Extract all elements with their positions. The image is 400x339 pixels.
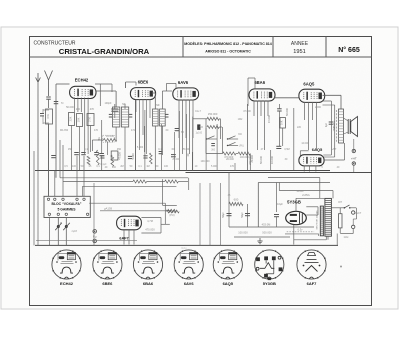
resistor R osc grid [69, 113, 75, 126]
terminal HT minus [352, 162, 355, 165]
svg-text:25.000: 25.000 [182, 148, 190, 151]
svg-text:5.000: 5.000 [137, 146, 144, 149]
svg-text:200: 200 [76, 108, 81, 111]
svg-text:250.000: 250.000 [208, 112, 218, 116]
svg-text:50µF: 50µF [222, 212, 225, 218]
electrolytic cap volume [197, 124, 200, 129]
svg-text:0,5M: 0,5M [284, 148, 289, 151]
svg-text:270.000: 270.000 [248, 155, 252, 165]
svg-text:470.000: 470.000 [145, 228, 155, 232]
svg-text:6AQ5: 6AQ5 [303, 81, 315, 86]
svg-text:1M2: 1M2 [238, 118, 243, 121]
switch contact 1 [206, 138, 217, 140]
svg-text:100: 100 [72, 165, 77, 168]
wire 6BA6 top left vertical [247, 78, 249, 106]
wire 5Y3 plates to transformer [295, 198, 297, 211]
svg-text:SECTEUR 110-245: SECTEUR 110-245 [317, 210, 319, 230]
svg-text:CA-7: CA-7 [195, 110, 201, 113]
svg-text:600: 600 [234, 198, 239, 202]
dashed trimmer box [103, 135, 114, 142]
svg-text:10K: 10K [77, 117, 81, 122]
svg-text:MA 350: MA 350 [60, 129, 69, 132]
fuse [339, 214, 343, 228]
svg-text:+HT: +HT [351, 157, 357, 161]
wire decoupling verticals [293, 108, 295, 171]
svg-text:453.0M: 453.0M [262, 223, 271, 227]
wire MF2 connections [154, 93, 156, 109]
bus ground main [35, 170, 330, 172]
svg-text:100pF: 100pF [104, 102, 112, 105]
svg-text:N° 665: N° 665 [338, 46, 360, 54]
wire transformer bottom [327, 236, 329, 240]
resistor inline AVC 2 [165, 180, 179, 183]
capacitor MF1 right [129, 113, 132, 115]
tube 6BE6 [130, 88, 155, 100]
svg-text:ARIOSO 811 - OCTOMATIC: ARIOSO 811 - OCTOMATIC [205, 50, 251, 54]
wire OT to speaker [344, 118, 349, 121]
svg-text:4,7M: 4,7M [147, 219, 153, 223]
tube 6AV6 [173, 88, 199, 100]
svg-text:BLOC “VOXALFA”: BLOC “VOXALFA” [52, 202, 82, 206]
speaker [347, 119, 349, 134]
wire filter bottom bus [229, 226, 314, 228]
capacitors on ground bus [51, 155, 56, 157]
svg-text:50.000: 50.000 [259, 155, 263, 163]
svg-text:5 GAMMES: 5 GAMMES [57, 208, 76, 212]
wire drops into bloc [48, 124, 50, 196]
svg-text:6BA6: 6BA6 [254, 80, 265, 85]
wire ECH42 grid left [56, 83, 70, 85]
svg-text:MODÈLES: PHILHARMONIC 812 - PI: MODÈLES: PHILHARMONIC 812 - PIANOMATIC 8… [184, 41, 272, 46]
tube 5Y3GB [286, 211, 307, 224]
svg-text:100: 100 [164, 165, 169, 168]
svg-text:+HT: +HT [332, 148, 337, 151]
capacitor 5.000 [128, 155, 132, 157]
svg-text:12.000: 12.000 [301, 142, 309, 145]
stray mark [340, 266, 342, 268]
svg-text:ECH42: ECH42 [75, 78, 89, 83]
wire 6BE6 pins [135, 99, 137, 112]
capacitor tone [329, 121, 333, 123]
resistor vertical pair mid [96, 150, 99, 165]
socket 6BE6 [93, 250, 122, 279]
bus lower second [36, 240, 137, 242]
wire 6AQ5-2 pins [303, 166, 305, 172]
svg-text:500.000: 500.000 [262, 231, 272, 235]
wire bus drop left [59, 140, 61, 178]
wire drop x188 [188, 178, 190, 190]
svg-text:0,1: 0,1 [84, 148, 88, 151]
capacitor 6BA6 screen [277, 108, 282, 110]
ground arrow electrode [37, 73, 39, 82]
svg-text:MF: MF [156, 104, 160, 107]
capacitor detector [175, 128, 180, 130]
wire transformer to mains [331, 207, 344, 209]
resistor 6AF7 2M [168, 209, 177, 212]
svg-text:MF: MF [122, 103, 126, 106]
tube 6BA6 [249, 89, 275, 101]
wire 6BA6 pins [253, 101, 255, 117]
tube 6AQ5 second [299, 155, 324, 166]
resistor vert 150 [150, 153, 153, 164]
wire HT distribution [234, 236, 290, 238]
wire 6AQ5 pins [304, 102, 306, 120]
svg-text:22K: 22K [69, 116, 73, 121]
wire osc grid top [95, 83, 112, 85]
terminal PU jack 1 [93, 230, 97, 234]
socket 6AQ5 [213, 250, 242, 279]
svg-text:10K: 10K [280, 120, 284, 125]
wire PU pickup step [162, 179, 164, 205]
svg-text:5.000: 5.000 [132, 153, 135, 160]
antenna [45, 71, 49, 81]
wire 6BE6 top left [125, 82, 127, 88]
resistor filter 600ohm [229, 202, 243, 205]
svg-text:6AV6: 6AV6 [184, 281, 194, 286]
wire 6AQ5 plate to OT [323, 94, 342, 96]
capacitor switch net [211, 143, 215, 145]
svg-text:2M: 2M [120, 165, 123, 168]
coil block BLOC VOXALFA 5 GAMMES [44, 196, 90, 217]
resistor box mid [111, 151, 118, 160]
svg-text:2.000: 2.000 [315, 106, 322, 109]
wire secondary step [294, 239, 327, 241]
power transformer primary [320, 206, 323, 236]
resistor 2nd AF [207, 126, 219, 129]
capacitor grid x56 [54, 101, 59, 103]
resistor screen feed [280, 118, 285, 129]
svg-text:5Y3GB: 5Y3GB [287, 200, 301, 205]
svg-text:2µF8: 2µF8 [72, 230, 78, 233]
wire ECH42 pins [74, 98, 76, 113]
svg-text:220: 220 [297, 126, 302, 129]
svg-text:50µF: 50µF [241, 212, 244, 218]
svg-text:ANNEE: ANNEE [291, 41, 309, 47]
svg-text:6AF7: 6AF7 [307, 281, 318, 286]
wire bus right section [186, 172, 372, 174]
wire 6AV6 pins [178, 100, 180, 139]
resistor R osc anode [77, 114, 83, 127]
resistor R screen [87, 114, 94, 126]
wire 6AF7 right [141, 217, 161, 219]
svg-text:1951: 1951 [293, 49, 305, 55]
svg-text:100.000: 100.000 [238, 231, 248, 235]
wire AF bottom with resistors [223, 152, 236, 155]
capacitor filter 1 [227, 213, 232, 215]
svg-text:1M: 1M [146, 165, 149, 168]
wire AF net verticals [205, 119, 207, 154]
header band [30, 56, 372, 58]
svg-text:470: 470 [94, 129, 99, 132]
svg-text:2x350v: 2x350v [302, 194, 311, 197]
wire ECH42 plate right [97, 90, 117, 92]
svg-text:6BA6: 6BA6 [143, 281, 154, 286]
svg-text:6,3 v: 6,3 v [182, 248, 188, 250]
capacitor filter 3 [274, 214, 279, 216]
resistor 10.000 horizontal [92, 139, 103, 141]
capacitor AVC [81, 152, 86, 154]
wire AF top [193, 118, 207, 120]
socket ECH42 [52, 250, 81, 279]
bus AVC [60, 177, 188, 179]
bus bottom chassis [35, 244, 338, 246]
svg-text:360: 360 [211, 149, 216, 152]
wire 6AV6 top bracket [167, 82, 177, 84]
svg-text:47K: 47K [46, 114, 50, 119]
wire 6AF7 pins down [123, 230, 125, 245]
svg-text:472: 472 [131, 129, 136, 132]
wire HT loop [279, 190, 333, 192]
svg-text:47.000: 47.000 [243, 110, 251, 113]
resistor 250.000 [207, 117, 219, 120]
svg-text:6AQ5: 6AQ5 [223, 281, 234, 286]
wire HT terminals [353, 139, 355, 149]
svg-text:16µF: 16µF [277, 203, 283, 206]
svg-text:150: 150 [68, 148, 73, 151]
bus detector line with resistors [63, 181, 133, 183]
capacitor antenna series [46, 96, 51, 98]
svg-text:µA159: µA159 [104, 207, 113, 211]
resistor inline AVC 1 [133, 180, 147, 183]
capacitor padding [111, 108, 118, 110]
capacitor MF2 right [165, 113, 168, 115]
wire IF mid drops [135, 100, 137, 171]
potentiometer tone [65, 218, 67, 246]
tube 6AQ5 [299, 89, 325, 102]
wire filter net [228, 204, 230, 227]
terminal HT plus [352, 149, 355, 152]
svg-text:2x350: 2x350 [297, 190, 304, 193]
svg-text:200: 200 [112, 166, 117, 169]
capacitor 0,1 [100, 155, 104, 157]
svg-text:0,1: 0,1 [158, 148, 162, 151]
wire volume net vertical [192, 117, 194, 171]
wire 6AQ5-2 plate [323, 159, 344, 161]
IF transformer MF1 [113, 107, 120, 127]
capacitor plate decoupling [276, 145, 281, 147]
wire left chassis vertical [33, 151, 35, 245]
resistor PU [166, 210, 179, 213]
svg-text:470: 470 [230, 165, 235, 168]
wire 6BA6 to AF [247, 104, 249, 171]
svg-text:INT: INT [338, 201, 342, 204]
power transformer secondary [325, 198, 332, 236]
svg-text:(PU): (PU) [239, 145, 244, 148]
switch mains [344, 205, 349, 208]
socket 6AF7 [297, 250, 326, 279]
svg-text:20.000: 20.000 [226, 158, 234, 161]
output transformer [339, 109, 344, 143]
capacitor coupling mid [171, 154, 176, 156]
svg-text:5.000: 5.000 [211, 165, 218, 168]
IF transformer MF2 [153, 109, 159, 126]
svg-text:25.000: 25.000 [172, 158, 180, 161]
svg-text:6AQ5: 6AQ5 [312, 147, 323, 152]
svg-text:110v: 110v [343, 236, 349, 239]
svg-text:ECH42: ECH42 [60, 281, 74, 286]
svg-text:(PU): (PU) [169, 213, 174, 217]
svg-text:TRANSFO: TRANSFO [333, 120, 336, 131]
svg-text:SECT: SECT [355, 212, 362, 215]
heater line dashed [287, 231, 314, 233]
tube ECH42 [70, 86, 96, 98]
wire drops to bottom bus [37, 171, 39, 246]
svg-text:47.000: 47.000 [119, 152, 122, 160]
wire 6AQ5 cathode loop [330, 101, 332, 155]
wire heater feed [268, 177, 320, 179]
wire 6AQ5-2 grid bracket [300, 150, 308, 152]
svg-text:47.000: 47.000 [267, 114, 271, 122]
terminal PU jack 2 [93, 239, 97, 243]
svg-text:1µ160: 1µ160 [195, 132, 202, 135]
switch contact 2 [227, 138, 238, 140]
wire AVC return [82, 185, 176, 187]
schematic sheet frame [30, 37, 372, 306]
wire plug drop [336, 234, 338, 246]
svg-text:50.000: 50.000 [66, 106, 74, 109]
resistor antenna load [46, 109, 53, 124]
svg-text:27K: 27K [88, 117, 92, 122]
wire MF1 connections [115, 91, 117, 107]
mains plug [352, 211, 355, 214]
svg-text:CONSTRUCTEUR: CONSTRUCTEUR [34, 41, 76, 47]
capacitor cathode bypass [74, 152, 79, 154]
tube 6AF7 [117, 216, 142, 230]
svg-text:47K: 47K [90, 108, 95, 111]
potentiometer volume [57, 218, 59, 246]
svg-text:6AV6: 6AV6 [178, 80, 189, 85]
svg-text:100.000: 100.000 [200, 160, 210, 163]
svg-text:50.000: 50.000 [285, 107, 289, 115]
switch contact 3 [227, 145, 238, 147]
socket 6BA6 [133, 250, 162, 279]
capacitor 158 [159, 151, 163, 153]
wire 6AF7 feed [100, 210, 170, 212]
wire osc verticals [91, 140, 93, 151]
svg-text:P.µ: P.µ [93, 236, 97, 239]
svg-text:450: 450 [117, 148, 122, 151]
svg-text:6BE6: 6BE6 [102, 281, 113, 286]
wire HT rail to 5Y3 [258, 182, 330, 184]
svg-text:6,3v: 6,3v [298, 228, 304, 232]
wire heater to transformer [285, 233, 319, 235]
capacitor osc [99, 153, 104, 155]
svg-text:5M: 5M [200, 126, 203, 129]
capacitor filter 2 [245, 213, 250, 215]
resistor zigzag cathode [87, 156, 90, 165]
wire right of AF net [249, 154, 251, 171]
socket 5Y3GB [255, 250, 284, 279]
ground filter [259, 238, 261, 241]
capacitor mid2 [143, 155, 147, 157]
svg-text:10.000: 10.000 [106, 134, 114, 138]
wire antenna to bloc [48, 124, 50, 196]
svg-text:2µF: 2µF [325, 122, 328, 127]
capacitor MF1 left [109, 113, 112, 115]
bloc bottom terminals [48, 213, 50, 215]
svg-text:6BE6: 6BE6 [138, 80, 149, 85]
wire drops to ground bus [134, 100, 136, 171]
svg-text:CRISTAL-GRANDIN/ORA: CRISTAL-GRANDIN/ORA [59, 47, 150, 56]
svg-text:5Y3GB: 5Y3GB [263, 281, 276, 286]
wire 5Y3 cathode down [293, 225, 295, 245]
socket 6AV6 [174, 250, 203, 279]
svg-text:360: 360 [238, 133, 243, 136]
wire bloc output right [89, 202, 165, 204]
wire 6BA6-6AQ5 link [274, 97, 299, 99]
wire bloc left drop [48, 217, 50, 246]
